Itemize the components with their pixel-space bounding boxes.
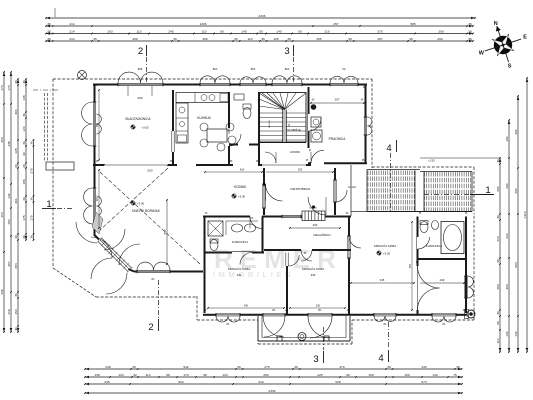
drain ring bottom-right corner: [465, 310, 476, 319]
svg-text:203: 203: [107, 29, 112, 33]
door degazman-bedroom2: [301, 250, 312, 261]
wall vjetrobran right: [334, 168, 336, 215]
svg-text:160: 160: [404, 373, 409, 377]
dimension row bottom 3: [84, 380, 463, 386]
svg-text:245: 245: [168, 29, 173, 33]
door hodnik-kupaonica: [250, 217, 262, 229]
dimension column left 2: [7, 71, 12, 333]
svg-text:36: 36: [47, 29, 51, 33]
svg-text:673: 673: [421, 380, 426, 384]
svg-text:36: 36: [496, 311, 500, 315]
svg-text:250: 250: [514, 188, 518, 193]
svg-text:361: 361: [14, 198, 18, 203]
svg-text:214: 214: [69, 37, 74, 41]
svg-text:36: 36: [348, 37, 352, 41]
svg-text:50: 50: [259, 29, 263, 33]
svg-text:36: 36: [30, 235, 34, 239]
svg-text:436: 436: [0, 289, 4, 294]
interior dim dining v: [96, 89, 100, 161]
svg-text:36: 36: [468, 22, 472, 26]
door bedroom1 terrace: [263, 309, 285, 337]
dimension row bottom 4: [84, 389, 463, 395]
living room ceiling slope dashed: [100, 168, 200, 264]
svg-text:36: 36: [287, 37, 291, 41]
svg-text:550: 550: [147, 169, 152, 173]
svg-text:410: 410: [240, 168, 245, 172]
degazman label: [289, 223, 341, 237]
svg-text:230: 230: [298, 168, 303, 172]
svg-text:+3.00: +3.00: [238, 195, 246, 199]
svg-text:153: 153: [14, 309, 18, 314]
porch ULAZ edge: [351, 165, 367, 216]
svg-text:430: 430: [244, 305, 249, 308]
section mark 2 bottom: [148, 280, 158, 333]
svg-text:275: 275: [30, 168, 34, 173]
kitchen table and chairs: [200, 123, 236, 151]
wall wc bottom: [229, 144, 259, 146]
svg-text:140: 140: [432, 373, 437, 377]
svg-text:80B: 80B: [138, 67, 143, 71]
svg-text:3: 3: [313, 354, 318, 365]
wall diagonal bay: [95, 235, 135, 272]
svg-text:257: 257: [333, 22, 338, 26]
svg-text:152: 152: [7, 219, 11, 224]
svg-text:345: 345: [380, 278, 385, 282]
svg-text:HODNIK: HODNIK: [234, 185, 247, 189]
svg-text:36: 36: [30, 141, 34, 145]
praonica interior fixtures: [311, 104, 322, 142]
svg-text:+3.00: +3.00: [142, 126, 150, 130]
door left D1 french: [82, 102, 102, 146]
svg-text:234: 234: [505, 233, 509, 238]
vjetrobran label: [290, 187, 310, 191]
door bedroom3: [347, 236, 361, 258]
svg-text:26: 26: [22, 164, 26, 168]
svg-text:330: 330: [316, 305, 321, 308]
wall bedroom-block left: [204, 217, 206, 314]
door bedroom3-bath: [416, 237, 429, 249]
svg-text:36: 36: [93, 37, 97, 41]
window bedroom3 bottom: [374, 313, 396, 326]
entrance steps ULAZ: [302, 208, 325, 221]
dimension column left 1: [0, 71, 5, 333]
hodnik label: [231, 185, 247, 199]
svg-text:36: 36: [234, 37, 238, 41]
svg-text:403: 403: [0, 212, 4, 217]
window middle bottom: [282, 215, 301, 219]
svg-text:80A: 80A: [285, 67, 290, 71]
wall kupaonica right: [262, 217, 264, 253]
living room label DNEVNI BORAVAK: [130, 200, 161, 213]
svg-text:248: 248: [105, 365, 110, 369]
svg-text:N: N: [494, 21, 498, 27]
svg-text:173: 173: [0, 85, 4, 90]
svg-text:80A: 80A: [251, 67, 256, 71]
svg-text:170: 170: [183, 373, 188, 377]
svg-text:4: 4: [378, 353, 383, 364]
svg-text:245: 245: [104, 380, 109, 384]
svg-text:214: 214: [69, 29, 74, 33]
interior dim bedroom1: [207, 305, 285, 309]
terrace bottom slab: [258, 316, 350, 341]
svg-text:2: 2: [148, 322, 153, 333]
svg-text:36: 36: [22, 80, 26, 84]
svg-text:310: 310: [258, 380, 263, 384]
window right-wall lower: [464, 276, 473, 298]
svg-text:550: 550: [163, 229, 167, 234]
svg-text:275: 275: [264, 365, 269, 369]
svg-text:36: 36: [14, 80, 18, 84]
svg-text:360: 360: [96, 122, 99, 127]
ulaz label: [348, 185, 356, 189]
kupaonica label: [232, 240, 248, 244]
svg-text:585: 585: [410, 22, 415, 26]
kitchen label: [197, 116, 212, 120]
door bath-right: [418, 266, 440, 310]
svg-text:160: 160: [368, 373, 373, 377]
svg-text:130: 130: [514, 331, 518, 336]
svg-text:308: 308: [505, 284, 509, 289]
section mark 4 right-top: [386, 140, 396, 212]
svg-text:36: 36: [468, 29, 472, 33]
svg-text:553: 553: [514, 262, 518, 267]
svg-text:345: 345: [421, 365, 426, 369]
svg-text:90: 90: [298, 29, 302, 33]
bath right label: [426, 244, 442, 248]
svg-text:295: 295: [316, 37, 321, 41]
window praonica right: [364, 117, 372, 135]
svg-text:SPAVAČA SOBA: SPAVAČA SOBA: [374, 243, 397, 248]
svg-text:150: 150: [505, 136, 509, 141]
interior dim bedroom3 v: [409, 221, 413, 311]
svg-text:VJETROBRAN: VJETROBRAN: [290, 187, 310, 191]
svg-text:2: 2: [138, 46, 143, 57]
section mark 1 left: [42, 199, 74, 210]
pergola dashed left: [45, 93, 48, 162]
dimension column right 1: [496, 157, 501, 353]
dimension row top overall 2336: [45, 14, 476, 20]
svg-text:36: 36: [30, 197, 34, 201]
dimension row top 3: [45, 29, 474, 35]
bedroom3 dim 345: [350, 278, 465, 284]
svg-text:175: 175: [30, 215, 34, 220]
dimension column right 3: [514, 95, 519, 353]
svg-text:3: 3: [284, 46, 289, 57]
opening hodnik-stair: [262, 164, 306, 166]
svg-text:36: 36: [22, 141, 26, 145]
svg-text:36: 36: [22, 113, 26, 117]
svg-text:36: 36: [14, 327, 18, 331]
svg-text:140: 140: [241, 29, 246, 33]
dimension column right 4: [523, 77, 528, 353]
svg-text:4: 4: [386, 143, 391, 154]
svg-text:110: 110: [248, 37, 253, 41]
svg-text:36: 36: [409, 37, 413, 41]
svg-text:375: 375: [377, 29, 382, 33]
wall praonica bottom: [308, 162, 367, 164]
svg-text:E: E: [523, 35, 527, 41]
svg-text:KUPAONICA: KUPAONICA: [426, 244, 442, 248]
svg-text:138: 138: [94, 373, 99, 377]
wall bedroom3 left: [348, 217, 350, 316]
svg-text:460: 460: [313, 223, 318, 227]
svg-text:470: 470: [339, 365, 344, 369]
wall bath-right left: [417, 217, 419, 316]
door praonica left: [307, 114, 321, 131]
svg-text:290: 290: [437, 37, 442, 41]
window bedroom1 bottom: [216, 313, 240, 326]
wall top exterior: [93, 84, 367, 86]
svg-text:260: 260: [263, 373, 268, 377]
door swing arcs inside bay: [104, 229, 140, 265]
svg-text:130: 130: [505, 331, 509, 336]
svg-text:5x16/30: 5x16/30: [309, 208, 318, 210]
wall bedroom-block bottom: [203, 314, 467, 316]
svg-text:36: 36: [14, 235, 18, 239]
svg-text:400: 400: [137, 96, 142, 100]
svg-text:280: 280: [496, 186, 500, 191]
window top W3: [240, 67, 266, 86]
svg-text:140: 140: [276, 29, 281, 33]
window top W1 400: [118, 67, 163, 100]
wall living bottom: [134, 271, 203, 273]
kitchen counter top: [176, 93, 229, 103]
wall stair-praonica divider: [308, 87, 310, 148]
svg-text:175: 175: [22, 215, 26, 220]
bedroom3 label: [374, 243, 397, 256]
svg-text:36: 36: [22, 235, 26, 239]
wall wc right / stair left: [258, 92, 260, 165]
svg-text:1416: 1416: [523, 211, 527, 218]
roof outline dashed: [53, 79, 474, 344]
svg-text:36: 36: [237, 365, 241, 369]
section mark 2 top: [138, 45, 147, 82]
svg-text:455: 455: [409, 263, 412, 268]
section mark 4 bottom: [378, 322, 388, 364]
dimension column left 4: [22, 78, 27, 241]
svg-text:PRAONICA: PRAONICA: [329, 137, 347, 141]
wall kitchen right: [228, 92, 230, 165]
corridor below stairs: [259, 143, 306, 164]
svg-text:214: 214: [69, 22, 74, 26]
svg-text:300: 300: [14, 109, 18, 114]
svg-text:36: 36: [468, 37, 472, 41]
svg-text:+1.50: +1.50: [428, 159, 435, 163]
svg-text:2336: 2336: [259, 14, 266, 18]
wall kupaonica bottom: [204, 252, 264, 254]
opening dining-living 550: [103, 164, 169, 172]
svg-text:90: 90: [22, 152, 26, 156]
door kitchen-WC: [229, 128, 241, 146]
extension line top: [54, 8, 56, 17]
door praonica bottom: [311, 150, 324, 163]
interior dim bedroom2: [289, 305, 346, 309]
svg-text:36: 36: [496, 215, 500, 219]
svg-text:125: 125: [14, 148, 18, 153]
wall praonica right exterior: [365, 85, 367, 163]
bedroom1 label: [228, 266, 251, 277]
svg-text:300: 300: [202, 37, 207, 41]
dining room label BLAGOVAONICA: [125, 117, 151, 130]
svg-text:290: 290: [438, 29, 443, 33]
svg-text:155: 155: [22, 179, 26, 184]
svg-text:284: 284: [14, 263, 18, 268]
svg-text:98: 98: [203, 373, 207, 377]
svg-text:36: 36: [456, 365, 460, 369]
svg-text:307: 307: [7, 261, 11, 266]
svg-text:390: 390: [514, 129, 518, 134]
svg-text:STUBIŠTE: STUBIŠTE: [287, 127, 301, 132]
svg-text:IMMOBILIEN: IMMOBILIEN: [213, 270, 294, 279]
axis dashdot left upper: [33, 89, 60, 91]
window top W4: [272, 67, 302, 86]
kupaonica fixtures: [208, 221, 258, 251]
window top W5 praonica: [330, 67, 358, 86]
svg-text:S: S: [508, 64, 512, 70]
svg-text:403: 403: [0, 137, 4, 142]
svg-text:6A: 6A: [342, 67, 345, 71]
interior dim upper kitchen: [178, 96, 227, 98]
dimension row bottom 2: [84, 373, 463, 379]
svg-text:W: W: [479, 50, 485, 56]
svg-text:130: 130: [7, 193, 11, 198]
praonica dim 257: [310, 98, 365, 104]
svg-text:110: 110: [137, 29, 142, 33]
chimney circle top-left: [78, 71, 87, 80]
wall degazman bottom: [264, 249, 351, 251]
svg-text:36: 36: [22, 197, 26, 201]
svg-text:36: 36: [261, 37, 265, 41]
dimension column left 3: [14, 78, 19, 333]
svg-text:400: 400: [132, 37, 137, 41]
svg-text:98: 98: [166, 373, 170, 377]
tiny dims scatter: [95, 85, 468, 312]
svg-text:2336: 2336: [269, 389, 276, 393]
wall hodnik-vjetrobran divider: [263, 168, 265, 215]
svg-text:36: 36: [496, 259, 500, 263]
dimension row top 4: [45, 37, 474, 43]
svg-text:257: 257: [334, 98, 339, 102]
watermark big: [214, 244, 343, 274]
svg-text:297: 297: [377, 37, 382, 41]
bedroom2 label: [302, 266, 325, 277]
svg-text:563: 563: [178, 380, 183, 384]
dimension column right 2: [505, 119, 510, 353]
window room4 bottom: [432, 313, 456, 326]
door bedroom2 terrace: [308, 309, 332, 338]
svg-text:18x17,6: 18x17,6: [269, 119, 271, 128]
door left D2 french: [84, 188, 103, 234]
svg-text:+3.00: +3.00: [137, 202, 145, 206]
svg-text:KUHINJA: KUHINJA: [197, 116, 212, 120]
door kupaonica: [232, 251, 252, 264]
svg-text:90: 90: [346, 373, 350, 377]
svg-text:218: 218: [7, 309, 11, 314]
section mark 3 top: [284, 45, 293, 82]
svg-text:32: 32: [133, 373, 137, 377]
svg-text:528: 528: [335, 380, 340, 384]
svg-text:36: 36: [387, 365, 391, 369]
svg-text:DEGAŽMAN: DEGAŽMAN: [313, 232, 330, 237]
door vjetrobran-hodnik: [262, 184, 282, 208]
svg-text:36: 36: [14, 293, 18, 297]
svg-text:542: 542: [183, 365, 188, 369]
door bedroom2 entry: [288, 255, 299, 266]
svg-text:36: 36: [47, 37, 51, 41]
bath right fixtures: [420, 221, 464, 254]
svg-text:75: 75: [453, 373, 457, 377]
wall bedroom-block right: [465, 217, 467, 314]
svg-text:36: 36: [132, 365, 136, 369]
svg-text:80A: 80A: [213, 67, 218, 71]
steps right lower: [0, 0, 1, 1]
svg-text:BLAGOVAONICA: BLAGOVAONICA: [125, 117, 151, 121]
svg-text:438: 438: [7, 141, 11, 146]
svg-text:HODNIK: HODNIK: [290, 150, 300, 154]
wall dining-kitchen divider: [172, 90, 174, 165]
svg-text:120: 120: [118, 373, 123, 377]
wall bedroom1-2 divider: [286, 253, 288, 316]
praonica label: [329, 137, 347, 141]
kitchen counter left: [176, 103, 188, 143]
svg-text:173: 173: [7, 85, 11, 90]
svg-text:+3.00: +3.00: [383, 252, 391, 256]
watermark small: [213, 270, 294, 279]
svg-text:36: 36: [173, 37, 177, 41]
window top W2: [200, 67, 230, 86]
door swing arcs outside bay: [76, 222, 127, 294]
window living bottom: [137, 262, 170, 281]
svg-text:253: 253: [496, 284, 500, 289]
section mark 3 bottom: [313, 327, 323, 365]
door diagonal bay glazed: [97, 237, 133, 273]
wall middle bottom: [203, 216, 351, 218]
svg-text:240: 240: [440, 278, 445, 282]
dimension row top 2: [45, 22, 474, 28]
interior dim living v: [96, 169, 100, 229]
svg-text:36: 36: [47, 22, 51, 26]
hallway interior dims: [204, 168, 334, 173]
door entrance vjetrobran: [308, 197, 326, 215]
svg-text:105: 105: [273, 37, 278, 41]
svg-text:210: 210: [324, 29, 329, 33]
svg-text:113: 113: [146, 373, 151, 377]
svg-text:26: 26: [14, 164, 18, 168]
wc room fixtures: [234, 94, 251, 119]
svg-text:65: 65: [496, 321, 500, 325]
svg-text:290: 290: [505, 183, 509, 188]
svg-text:1206: 1206: [200, 22, 207, 26]
svg-text:DNEVNI BORAVAK: DNEVNI BORAVAK: [132, 209, 161, 213]
svg-text:300: 300: [96, 196, 99, 201]
svg-text:110: 110: [202, 29, 207, 33]
door ulaz-vjetrobran: [333, 180, 347, 202]
terrace stairs top-right hatch: [367, 158, 500, 212]
svg-text:148: 148: [22, 95, 26, 100]
svg-text:213: 213: [496, 236, 500, 241]
svg-text:120: 120: [222, 373, 227, 377]
section mark 1 right: [424, 185, 494, 196]
dimension column left 5: [30, 139, 35, 241]
svg-text:ULAZ: ULAZ: [348, 185, 356, 189]
svg-text:90: 90: [220, 29, 224, 33]
living room interior dim: [163, 199, 168, 265]
svg-text:36: 36: [294, 365, 298, 369]
compass rose: [479, 21, 527, 70]
svg-text:225: 225: [317, 373, 322, 377]
svg-text:110: 110: [496, 338, 500, 343]
svg-text:120: 120: [22, 126, 26, 131]
